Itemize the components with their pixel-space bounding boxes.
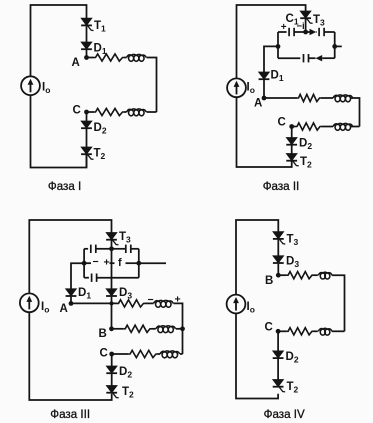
capacitor (cell top right) xyxy=(319,28,324,36)
wire: cell top row left segment xyxy=(278,31,287,33)
thyristor T3 (phase IV) xyxy=(273,232,285,244)
resistor (phase II row A) xyxy=(297,94,321,101)
thyristor T3 (phase II) xyxy=(300,11,312,23)
wire: right capacitor to cell corner xyxy=(324,31,335,33)
resistor (phase III row C) xyxy=(129,350,158,357)
svg-text:C: C xyxy=(73,105,81,117)
diode D2 (phase II) xyxy=(286,138,297,145)
capacitor (cell III top right) xyxy=(126,245,131,253)
junction: cell top mid (phase II) xyxy=(303,30,308,35)
capacitor (cell bottom) xyxy=(304,54,309,62)
wire: inductor to resistor (IV row C) xyxy=(314,330,318,332)
wire: D1 cathode to node A (phase II) xyxy=(263,80,265,98)
wire: D1 cathode to node A (III) xyxy=(70,297,72,304)
current arrow left (cell bottom) xyxy=(316,55,323,61)
diode D2 (phase IV) xyxy=(273,351,284,358)
wire: inductor to right rail (phase II row A) xyxy=(351,98,360,127)
diode D3 (phase IV) xyxy=(273,256,284,263)
thyristor T3 (phase III) xyxy=(106,233,118,245)
svg-text:B: B xyxy=(99,328,107,340)
wire: D2 cathode to T2 anode (IV) xyxy=(277,359,279,380)
wire: inductor to right rail (III row B) xyxy=(176,328,183,330)
wire: phase IV left rail bottom segment xyxy=(236,314,278,399)
wire: phase III left rail bottom segment xyxy=(29,312,111,400)
junction: cell right mid (phase III) xyxy=(136,261,141,266)
wire: junction down to node B (III) xyxy=(111,303,113,328)
diode D1 (phase I) xyxy=(81,42,92,49)
wire: node C to D2 anode xyxy=(86,112,88,121)
capacitor C1 xyxy=(289,28,294,36)
diode D3 (phase III) xyxy=(106,289,117,296)
junction row A / D3 (phase III) xyxy=(110,301,114,305)
svg-text:Фаза II: Фаза II xyxy=(263,180,300,193)
junction right rail row B (phase III) xyxy=(180,326,185,331)
wire: node C to D2 anode (phase II) xyxy=(291,127,293,138)
svg-text:А: А xyxy=(254,98,262,110)
wire: node A to junction (III row A) xyxy=(71,302,117,304)
wire: cell bottom row left segment xyxy=(278,57,300,59)
thyristor T2 (phase I) xyxy=(81,147,93,159)
wire: T1 cathode to D1 anode xyxy=(86,26,88,42)
node A (phase III) xyxy=(69,301,74,306)
inductor (phase II row A) xyxy=(333,95,353,102)
wire: cell mid row right segment (III) xyxy=(126,262,139,264)
wire: cell mid row centre segment (III) xyxy=(110,262,115,264)
wire: inductor to right rail (row A) xyxy=(147,58,157,113)
resistor (phase IV row C) xyxy=(287,328,314,335)
capacitor (cell III top left) xyxy=(91,245,96,253)
wire: phase IV left rail top segment xyxy=(236,220,278,294)
inductor (phase III row C) xyxy=(160,351,180,358)
svg-text:−i: −i xyxy=(297,21,305,32)
svg-text:B: B xyxy=(265,275,273,287)
wire: D2 cathode to T2 anode (III) xyxy=(111,374,113,386)
node C (phase III) xyxy=(109,352,114,357)
current source I0 (phase I) xyxy=(21,76,40,95)
wire: phase I left rail bottom segment xyxy=(31,95,87,167)
wire: node C to resistor (III row C) xyxy=(112,353,129,355)
wire: resistor to inductor (III row A) xyxy=(145,302,154,304)
node C (phase I) xyxy=(84,110,89,115)
svg-text:Фаза III: Фаза III xyxy=(50,408,90,421)
wire: resistor to inductor (III row B) xyxy=(152,328,156,330)
wire: node C to D2 anode (IV) xyxy=(277,331,279,351)
wire: cell right stub xyxy=(335,45,342,47)
node A (phase I) xyxy=(84,55,89,60)
wire: D3 cathode to node B (IV) xyxy=(277,264,279,276)
svg-text:A: A xyxy=(60,303,68,315)
wire: resistor to inductor (III row C) xyxy=(158,353,161,355)
wire: node B to resistor (III row B) xyxy=(112,328,124,330)
svg-text:f: f xyxy=(118,257,122,269)
wire: cell top row left segment (III) xyxy=(84,248,88,250)
svg-text:C: C xyxy=(265,322,273,334)
wire: cell right side xyxy=(334,32,336,58)
wire: bottom capacitor to arrow xyxy=(309,57,316,59)
svg-text:+: + xyxy=(104,257,110,269)
wire: phase II left rail bottom segment xyxy=(237,97,292,167)
junction: cell top mid (phase III) xyxy=(109,246,114,251)
junction: cell left mid (phase II) xyxy=(276,44,281,49)
current source I0 (phase III) xyxy=(20,293,39,312)
current source I0 (phase IV) xyxy=(227,295,246,314)
current source I0 (phase II) xyxy=(227,78,246,97)
wire: right rail to inductor (row C) xyxy=(147,111,157,113)
wire: cell centre vertical (III) xyxy=(111,249,113,289)
wire: T3 cathode to cell (phase III) xyxy=(111,240,113,248)
resistor (phase I row A) xyxy=(94,54,124,61)
wire: D2 cathode to T2 anode xyxy=(86,129,88,147)
wire: T3 cathode to cell top junction xyxy=(305,19,307,32)
diode D2 (phase III) xyxy=(106,366,117,373)
node A (phase II) xyxy=(262,96,267,101)
wire: cell left stub to D1 (III) xyxy=(71,263,84,289)
diode D1 (phase III) xyxy=(66,289,77,296)
diode D2 (phase I) xyxy=(81,121,92,128)
wire: cell mid row left segment (III) xyxy=(84,262,91,264)
node B (phase IV) xyxy=(276,273,281,278)
resistor (phase I row C) xyxy=(94,108,124,115)
inductor (phase I row C) xyxy=(127,109,147,116)
svg-text:C: C xyxy=(278,117,286,129)
wire: inductor to right rail (IV row B) xyxy=(332,275,345,331)
svg-text:+: + xyxy=(281,22,287,33)
wire: inductor to resistor (row C) xyxy=(124,111,127,113)
current arrow right (cell top) xyxy=(310,29,317,35)
wire: junction to arrow xyxy=(306,31,310,33)
wire: T2 cathode to bottom rail xyxy=(86,155,88,168)
wire: C1 to cell top junction xyxy=(294,31,306,33)
thyristor T2 (phase III) xyxy=(106,386,118,398)
wire: node A to resistor (phase II row A) xyxy=(264,97,297,99)
wire: phase II left rail top segment xyxy=(237,5,306,78)
wire: cell left stub down to D1 xyxy=(264,46,278,72)
inductor (phase III row B) xyxy=(156,326,176,333)
wire: resistor to inductor (row A) xyxy=(124,57,127,59)
wire: node A to resistor xyxy=(87,57,95,59)
wire: inductor to resistor (phase II row C) xyxy=(322,126,334,128)
wire: cell right side (III) xyxy=(138,249,140,278)
wire: node C to D2 anode (III) xyxy=(111,354,113,366)
wire: cell left side xyxy=(277,32,279,58)
wire: right rail to inductor (phase II row C) xyxy=(351,126,360,128)
svg-text:Фаза I: Фаза I xyxy=(48,180,81,193)
node C (phase II) xyxy=(289,124,294,129)
wire: D2 cathode to T2 anode (phase II) xyxy=(291,145,293,153)
svg-text:C: C xyxy=(100,348,108,360)
wire: cell right stub (III) xyxy=(139,262,166,264)
node C (phase IV) xyxy=(276,329,281,334)
wire: right rail to inductor (IV row C) xyxy=(332,330,345,332)
thyristor T2 (phase IV) xyxy=(273,380,285,392)
resistor (phase IV row B) xyxy=(287,272,314,279)
wire: resistor to inductor (phase II row A) xyxy=(321,97,333,99)
junction: cell right mid (phase II) xyxy=(332,44,337,49)
wire: inductor to right rail (III row C) xyxy=(180,353,183,355)
inductor (phase IV row C) xyxy=(318,328,332,335)
diode D1 (phase II) xyxy=(259,72,270,79)
wire: arrow to cell bottom right corner xyxy=(322,57,335,59)
thyristor T1 xyxy=(81,18,93,30)
inductor (phase II row C) xyxy=(333,123,353,130)
wire: top left cap to mid junction (III) xyxy=(96,248,112,250)
resistor (phase III row B) xyxy=(124,325,152,332)
resistor (phase II row C) xyxy=(296,123,322,130)
thyristor T2 (phase II) xyxy=(286,154,298,166)
wire: top right cap to corner (III) xyxy=(131,248,139,250)
svg-text:Фаза IV: Фаза IV xyxy=(264,408,305,421)
resistor (phase III row A) xyxy=(117,300,145,307)
wire: D3 cathode to row A junction (III) xyxy=(111,297,113,304)
wire: node B to resistor (IV row B) xyxy=(278,274,286,276)
inductor (phase I row A) xyxy=(127,54,147,61)
wire: resistor to node C xyxy=(87,111,95,113)
wire: resistor to inductor (IV row B) xyxy=(314,274,318,276)
svg-text:A: A xyxy=(72,57,80,69)
svg-text:−: − xyxy=(93,256,99,268)
wire: resistor to node C (IV) xyxy=(278,330,287,332)
wire: T3 cathode to D3 anode (IV) xyxy=(277,240,279,256)
wire: right rail row B to row C (III) xyxy=(182,329,184,354)
inductor (phase III row A) xyxy=(154,300,174,307)
inductor (phase IV row B) xyxy=(318,272,332,279)
node B (phase III) xyxy=(109,326,114,331)
wire: mid junction to top right cap (III) xyxy=(112,248,126,250)
wire: phase I left rail top segment xyxy=(31,5,87,76)
wire: D1 cathode to node A xyxy=(86,50,88,58)
wire: phase III left rail top segment xyxy=(29,220,111,293)
wire: arrow to right capacitor xyxy=(315,31,318,33)
junction: cell left mid (phase III) xyxy=(82,261,87,266)
wire: inductor to right rail (III row A) xyxy=(174,303,183,328)
capacitor (cell III bottom) xyxy=(92,274,97,282)
wire: bottom cap to cell right corner (III) xyxy=(97,277,139,279)
wire: resistor to node C (phase II) xyxy=(292,126,296,128)
wire: cell bottom row left segment (III) xyxy=(84,277,89,279)
wire: cell left side (III) xyxy=(83,249,85,278)
